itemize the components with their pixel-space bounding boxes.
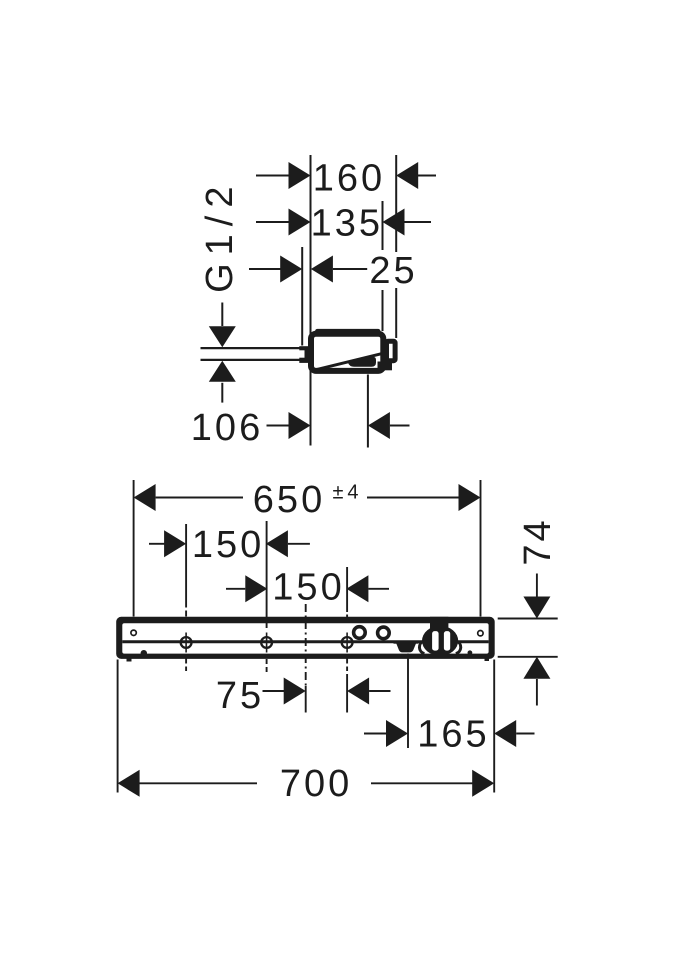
- svg-text:75: 75: [216, 675, 264, 717]
- ext line 150b right: [346, 567, 348, 612]
- ext line 650 right: [480, 480, 482, 617]
- dim150a right arrow: [266, 530, 288, 557]
- dim700 right arrow: [472, 770, 494, 797]
- dim150a left tail: [149, 543, 165, 545]
- dim106 right arrow: [368, 412, 390, 439]
- ext line 165 left: [407, 654, 409, 749]
- extension line E3 x=382.5 upper: [382, 201, 384, 250]
- dim165 left arrow: [386, 720, 408, 747]
- ext line 75 right anchor: [346, 674, 348, 713]
- valve lever blob: [348, 357, 376, 367]
- left hole: [131, 630, 136, 635]
- svg-text:165: 165: [417, 714, 489, 756]
- valve body outline: [311, 334, 383, 371]
- handle cap: [394, 641, 419, 644]
- dim106 left tail: [267, 425, 289, 427]
- screw crosshair 3: [342, 633, 353, 653]
- dim160 left tail: [256, 175, 290, 177]
- dim25 right arrow: [311, 256, 333, 283]
- dim150b left arrow: [245, 575, 267, 602]
- dim75 left tail: [263, 690, 285, 692]
- dim700 left arrow: [118, 770, 140, 797]
- handle trapezoid: [396, 643, 416, 653]
- dim106 left arrow: [289, 412, 311, 439]
- screw crosshair 1: [181, 633, 192, 653]
- dim150a left arrow: [164, 530, 186, 557]
- ext line crosshair2 below dash: [266, 659, 268, 664]
- extension line E1 x=310.5: [310, 155, 312, 446]
- dim700 line left: [120, 782, 257, 784]
- G1/2 lower arrow tail: [221, 383, 223, 403]
- svg-text:74: 74: [517, 517, 559, 565]
- ext line 150a left: [185, 524, 187, 608]
- dim165 right arrow: [494, 720, 516, 747]
- center line dash-dot: [305, 604, 307, 686]
- dim106 right tail: [390, 425, 410, 427]
- knob body: [422, 626, 458, 656]
- extension line E3 x=382.5 lower: [382, 290, 384, 331]
- dim74 down arrow: [523, 597, 550, 619]
- valve left tab: [299, 346, 308, 363]
- svg-text:25: 25: [369, 250, 417, 292]
- extension line E2 x=396.2 upper: [395, 155, 397, 252]
- knob left hook: [419, 641, 424, 654]
- right hole: [478, 631, 483, 636]
- extension line E2 x=396.2 lower: [395, 288, 397, 338]
- knob right hook: [456, 641, 461, 654]
- svg-text:±4: ±4: [332, 482, 362, 504]
- dim75 right arrow: [347, 678, 369, 705]
- svg-text:150: 150: [192, 524, 264, 566]
- dim25 right tail: [333, 268, 367, 270]
- dim650 line right: [367, 497, 459, 499]
- center line 75 anchor: [305, 686, 307, 713]
- ext line 150 mid: [266, 521, 268, 628]
- dim150b right tail: [368, 588, 389, 590]
- svg-text:650: 650: [253, 479, 325, 521]
- ext line 700 left: [117, 660, 119, 793]
- dim160 right arrow: [396, 162, 418, 189]
- ring 1: [354, 627, 366, 639]
- G1/2 pipe line upper: [201, 347, 302, 349]
- ext line 74 top: [498, 618, 558, 620]
- bar body inner: [122, 623, 488, 653]
- dim160 left arrow: [289, 162, 311, 189]
- knob slot left: [432, 631, 439, 651]
- dim650 right arrow: [459, 484, 481, 511]
- svg-text:106: 106: [191, 407, 263, 449]
- extension line E4 x=367.9: [367, 375, 369, 448]
- screw crosshair 2: [261, 633, 272, 653]
- G1/2 upper arrow tail: [221, 303, 223, 327]
- valve bottom-right shoulder: [378, 362, 393, 371]
- dim75 left arrow: [284, 678, 306, 705]
- dim160 right tail: [417, 175, 436, 177]
- dim650 left arrow: [134, 484, 156, 511]
- svg-text:G1/2: G1/2: [199, 179, 241, 293]
- ext line crosshair3 below dash: [346, 659, 348, 664]
- dim74 lower tail: [536, 679, 538, 706]
- G1/2 down arrow: [209, 326, 236, 347]
- dim150a right tail: [288, 543, 310, 545]
- ext line crosshair3 below dash2: [346, 667, 348, 672]
- dim135 left tail: [256, 221, 290, 223]
- dim150b left tail: [226, 588, 245, 590]
- valve top lip: [315, 329, 381, 335]
- ext line 74 bottom: [498, 656, 558, 658]
- left dot: [141, 650, 147, 656]
- dim135 left arrow: [289, 209, 311, 236]
- G1/2 pipe line lower: [201, 359, 302, 361]
- knob neck: [430, 617, 448, 632]
- bar right foot: [485, 658, 490, 662]
- ext line crosshair3 dash: [346, 615, 348, 621]
- right dot: [468, 650, 473, 655]
- ext line crosshair2 below dash2: [266, 667, 268, 672]
- dim165 right tail: [516, 733, 534, 735]
- dim74 upper tail: [536, 574, 538, 598]
- dim650 line left: [156, 497, 243, 499]
- valve right connector: [387, 341, 396, 360]
- ext line 700 right: [493, 660, 495, 793]
- svg-text:160: 160: [313, 157, 385, 199]
- svg-text:700: 700: [280, 763, 352, 805]
- dim150b right arrow: [346, 575, 368, 602]
- G1/2 up arrow: [209, 361, 236, 382]
- valve left tab notch: [297, 350, 305, 357]
- svg-text:135: 135: [311, 202, 383, 244]
- bar middle line: [122, 640, 488, 643]
- dim165 left tail: [364, 733, 386, 735]
- dim700 line right: [371, 782, 492, 784]
- dim75 right tail: [369, 690, 390, 692]
- dim135 right arrow: [383, 209, 405, 236]
- ext line crosshair1 dash: [185, 611, 187, 617]
- bar body outer: [116, 617, 495, 659]
- dim25 left arrow: [280, 256, 302, 283]
- dim135 right tail: [404, 221, 431, 223]
- valve diagonal lever line: [314, 354, 382, 371]
- dim25 left tail: [249, 268, 281, 270]
- ext line 650 left: [133, 480, 135, 617]
- dim74 up arrow: [523, 657, 550, 679]
- ring 2: [378, 627, 390, 639]
- ext line crosshair1 below dash2: [185, 667, 187, 672]
- extension line E0 x=302.2: [301, 247, 303, 346]
- svg-text:150: 150: [272, 567, 344, 609]
- bar left foot: [127, 658, 132, 662]
- knob slot right: [444, 631, 450, 651]
- ext line crosshair1 below dash: [185, 659, 187, 664]
